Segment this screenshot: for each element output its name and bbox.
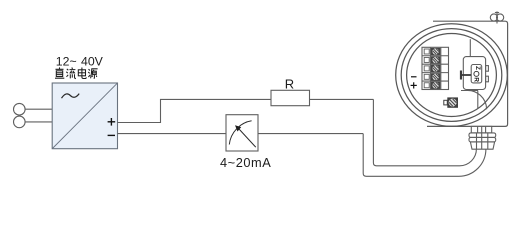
wire riser + down and bottom run to cable (inner) (373, 99, 476, 165)
terminal block column separators (429, 47, 431, 89)
char yuan (source) (88, 69, 97, 79)
ammeter needle arrowhead (235, 125, 241, 131)
transmitter middle ellipse (401, 29, 502, 122)
power supply box (12-40V DC source) (52, 83, 117, 149)
cable gland center line (481, 126, 483, 149)
wire from resistor to right riser (310, 98, 374, 100)
minus terminal label of power supply (108, 134, 115, 136)
wire from - terminal to ammeter (118, 133, 227, 135)
module center circle (474, 71, 479, 76)
Z/R adjust module body (463, 57, 485, 90)
char zhi (straight) (55, 67, 64, 78)
cable gland threaded neck (471, 126, 491, 132)
wire from ammeter to left riser (258, 133, 363, 135)
grounding screw below terminal block: tab (444, 100, 448, 105)
resistor R (rectangle) (271, 90, 310, 105)
char liu (flow) (66, 68, 76, 79)
plus label at terminal block (411, 82, 417, 88)
grounding screw square with hatched circle (447, 97, 458, 107)
partition line above Z/R module (469, 39, 471, 56)
AC tilde symbol inside power supply box (62, 94, 80, 99)
ammeter scale arc (229, 121, 251, 145)
wire from T2 to power supply box (25, 121, 52, 123)
vent plug on top of housing: two overlapping rings (490, 11, 503, 23)
wire from + terminal to riser (118, 99, 272, 122)
Z/R module inner plate (471, 65, 482, 83)
terminal circle T1 (upper left input) (13, 103, 25, 115)
svg-text:4~20mA: 4~20mA (220, 155, 271, 170)
module right tabs (486, 66, 489, 72)
wire riser - down and bottom run to cable (outer) (363, 134, 486, 177)
minus label at terminal block (411, 76, 417, 78)
svg-text:12~: 12~ (56, 55, 77, 69)
terminal screws (hatched) with clamp squares (424, 48, 440, 89)
terminal circle T2 (lower left input) (13, 116, 25, 128)
module support arc to inner ellipse (466, 90, 487, 109)
terminal block row separators (422, 55, 449, 57)
transmitter outer ellipse (396, 24, 508, 127)
cable gland upper nut ring 1 (469, 133, 496, 138)
ammeter needle (239, 129, 256, 147)
ammeter box (226, 115, 258, 151)
char dian (electric) (78, 68, 86, 79)
cable gland lower nut (tapered) (470, 142, 494, 149)
svg-text:Z: Z (474, 66, 481, 70)
cable gland upper nut ring 2 (469, 137, 496, 142)
svg-text:R: R (472, 77, 479, 82)
module adjustment screw (T shape) (460, 71, 471, 80)
svg-text:R: R (285, 77, 294, 92)
transmitter inner ellipse (407, 34, 497, 117)
module support vertical to inner ellipse (477, 91, 479, 109)
module base line (461, 90, 478, 92)
cable gland facet lines (476, 133, 478, 149)
label DC power source (CJK drawn strokes) (55, 67, 98, 78)
terminal block outer frame (422, 47, 449, 89)
plus terminal label of power supply (108, 118, 116, 126)
wire from T1 to power supply box (25, 108, 52, 110)
diagonal divider inside power supply box (52, 83, 117, 148)
svg-text:40V: 40V (81, 55, 104, 69)
transmitter housing rectangle (427, 21, 508, 126)
